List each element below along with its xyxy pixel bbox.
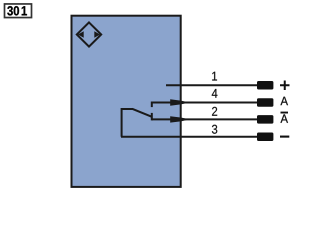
arrow pin 2 <box>170 116 189 122</box>
wire pin 2 <box>152 118 258 120</box>
terminal pin 1 <box>257 81 273 90</box>
label A-bar <box>280 113 288 123</box>
arrow pin 4 <box>170 99 189 105</box>
label 301 <box>5 4 32 18</box>
label - <box>280 136 289 138</box>
changeover switch <box>122 109 152 137</box>
sensor body <box>72 16 181 187</box>
pin number 3 <box>212 125 217 134</box>
terminal pin 4 <box>257 98 273 107</box>
contact tick pin 2 <box>151 113 153 121</box>
terminal pin 2 <box>257 115 273 124</box>
wire pin 1 <box>166 84 258 86</box>
wire pin 3 <box>121 136 258 138</box>
wire pin 4 <box>152 102 258 104</box>
terminal pin 3 <box>257 132 273 141</box>
pin number 2 <box>212 107 217 116</box>
pin number 4 <box>212 89 218 98</box>
contact tick pin 4 <box>151 102 153 108</box>
label + <box>280 80 290 90</box>
pin number 1 <box>212 72 217 81</box>
label A <box>280 97 288 105</box>
proximity sensor symbol <box>77 22 101 46</box>
